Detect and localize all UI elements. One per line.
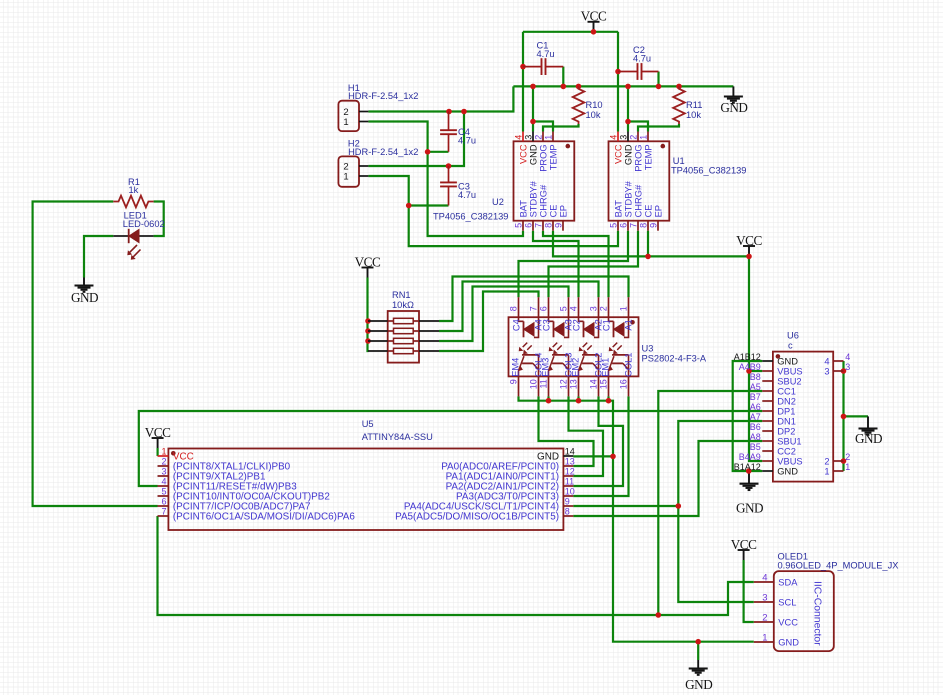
junction (841, 368, 847, 374)
wire H2 pin1 to U1 BAT (368, 176, 618, 246)
ground symbol GND (LED1) (71, 278, 98, 305)
wire VCC to U1 pin4 (617, 32, 619, 132)
svg-text:U5: U5 (362, 419, 374, 429)
svg-text:11: 11 (565, 477, 574, 487)
svg-text:EM4: EM4 (511, 358, 521, 377)
svg-text:4: 4 (514, 135, 524, 140)
svg-text:9: 9 (509, 379, 519, 384)
svg-text:2: 2 (534, 135, 544, 140)
junction (530, 119, 536, 125)
junction (446, 163, 452, 169)
wire GND rail (513, 85, 733, 87)
wire R1 to LED1 (154, 202, 164, 237)
svg-text:EM1: EM1 (601, 358, 611, 377)
wire GND rail to H1 pin2 (368, 86, 513, 111)
ground symbol GND (U6 pins) (736, 471, 763, 515)
svg-text:3: 3 (845, 362, 850, 372)
svg-text:6: 6 (619, 223, 629, 228)
wire VCC to U6 A4B9 (749, 370, 762, 372)
svg-text:B7: B7 (750, 392, 761, 402)
svg-text:A1: A1 (624, 319, 634, 330)
wire U2 STDBY# to U3 C2 (533, 231, 579, 298)
svg-text:7: 7 (161, 507, 166, 517)
wire U5 pin14 GND (573, 455, 613, 457)
junction (365, 338, 371, 344)
wire U5 PA6 SDA to OLED (158, 516, 754, 615)
wire U3 COL4 to U5 PA0 (539, 396, 594, 466)
junction (656, 84, 662, 90)
junction (446, 109, 452, 115)
wire H1 pin1 to U2 BAT (368, 122, 523, 237)
optocoupler U3 PS2802-4-F3-A (509, 297, 707, 396)
svg-text:TP4056_C382139: TP4056_C382139 (671, 166, 746, 176)
svg-text:DN1: DN1 (777, 416, 796, 426)
svg-text:RN1: RN1 (392, 290, 411, 300)
svg-text:2: 2 (845, 452, 850, 462)
wire U3 pin15 drop (607, 396, 609, 400)
svg-text:U6: U6 (787, 330, 799, 340)
resistor network RN1 (368, 290, 439, 363)
svg-text:8: 8 (544, 223, 554, 228)
svg-text:6: 6 (539, 306, 549, 311)
svg-text:STDBY#: STDBY# (529, 180, 539, 217)
ground symbol GND (top right) (720, 86, 747, 115)
svg-text:2: 2 (824, 456, 829, 466)
svg-text:10: 10 (529, 379, 539, 389)
wire U6 CC1 drop (658, 391, 762, 615)
svg-text:0.96OLED_4P_MODULE_JX: 0.96OLED_4P_MODULE_JX (778, 560, 899, 570)
svg-text:TEMP: TEMP (549, 144, 559, 170)
junction (656, 612, 662, 618)
ground symbol GND (U6 shield) (855, 416, 882, 446)
wire emitter common / GND bus (519, 396, 754, 641)
junction (530, 84, 536, 90)
svg-text:10: 10 (565, 487, 575, 497)
svg-text:A6: A6 (750, 402, 761, 412)
svg-text:(PCINT6/OC1A/SDA/MOSI/DI/ADC6): (PCINT6/OC1A/SDA/MOSI/DI/ADC6)PA6 (173, 511, 356, 522)
svg-text:4: 4 (609, 135, 619, 140)
wire U6 shield to GND (844, 415, 869, 417)
svg-text:13: 13 (569, 379, 579, 389)
svg-text:GND: GND (855, 431, 882, 446)
svg-text:DP1: DP1 (777, 406, 795, 416)
junction (576, 84, 582, 90)
wire U6 DN1 / SCL to OLED (678, 421, 762, 602)
svg-text:14: 14 (565, 447, 575, 457)
svg-text:VBUS: VBUS (777, 456, 802, 466)
svg-text:GND: GND (720, 100, 747, 115)
junction (365, 328, 371, 334)
wire U6 GND pins (733, 361, 763, 471)
wire RN1 row1 to U3 A1 (439, 277, 629, 322)
junction (746, 254, 752, 260)
svg-text:STDBY#: STDBY# (624, 180, 634, 217)
svg-text:A5: A5 (750, 382, 761, 392)
wire VCC riser to U6 VBUS (749, 255, 762, 461)
wire R1 to U5 PA7 (33, 202, 158, 507)
svg-text:6: 6 (524, 223, 534, 228)
svg-text:DP2: DP2 (777, 426, 795, 436)
wire U1 CE drop (647, 231, 649, 257)
svg-text:ATTINY84A-SSU: ATTINY84A-SSU (362, 432, 433, 442)
svg-text:U1: U1 (673, 156, 685, 166)
MCU U5 ATTINY84A-SSU (158, 419, 575, 530)
junction (546, 398, 552, 404)
junction (610, 454, 616, 460)
svg-text:B8: B8 (750, 372, 761, 382)
svg-text:VBUS: VBUS (777, 366, 802, 376)
svg-text:7: 7 (529, 306, 539, 311)
svg-text:3: 3 (524, 135, 534, 140)
junction (520, 64, 526, 70)
junction (576, 398, 582, 404)
svg-text:c: c (788, 340, 793, 350)
svg-text:5: 5 (514, 223, 524, 228)
wire U1 CHRG# to U3 C3 (549, 231, 639, 298)
wire H2 pin2 riser (368, 112, 464, 167)
svg-text:BAT: BAT (519, 200, 529, 218)
wire U1 TEMP to GND (628, 122, 648, 132)
wire U2 CE to VCC (553, 231, 749, 257)
svg-text:CE: CE (644, 204, 654, 217)
svg-text:6: 6 (161, 497, 166, 507)
svg-text:9: 9 (649, 223, 659, 228)
svg-text:8: 8 (639, 223, 649, 228)
wire VCC top rail (523, 31, 618, 33)
svg-text:12: 12 (565, 467, 575, 477)
svg-text:1: 1 (619, 306, 629, 311)
svg-text:8: 8 (565, 507, 570, 517)
svg-text:A4B9: A4B9 (739, 362, 761, 372)
svg-text:PS2802-4-F3-A: PS2802-4-F3-A (642, 354, 707, 364)
svg-text:PA5(ADC5/DO/MISO/OC1B/PCINT5): PA5(ADC5/DO/MISO/OC1B/PCINT5) (395, 511, 559, 522)
svg-text:C2: C2 (572, 319, 582, 331)
power flag VCC (U5) (145, 425, 171, 448)
svg-text:5: 5 (161, 487, 166, 497)
svg-text:5: 5 (559, 306, 569, 311)
svg-text:GND: GND (624, 144, 634, 165)
svg-text:CE: CE (549, 204, 559, 217)
svg-text:15: 15 (599, 379, 609, 389)
svg-text:LED-0602: LED-0602 (123, 219, 165, 229)
svg-text:IIC-Connector: IIC-Connector (812, 581, 823, 646)
junction (461, 109, 467, 115)
svg-text:1: 1 (343, 172, 348, 183)
wire U6 shield pins (842, 361, 844, 471)
wire RN1 row4 to U3 A4 (439, 292, 539, 352)
svg-text:11: 11 (539, 379, 549, 388)
wire U3 COL1 to U5 PA3 (573, 396, 628, 496)
svg-text:U2: U2 (492, 197, 504, 207)
svg-text:4.7u: 4.7u (458, 136, 476, 146)
resistor R11 (673, 86, 702, 124)
svg-text:2: 2 (629, 135, 639, 140)
junction (365, 318, 371, 324)
wire U2 CHRG# to U3 C1 (543, 231, 609, 298)
power flag VCC (OLED) (731, 537, 757, 560)
svg-text:HDR-F-2.54_1x2: HDR-F-2.54_1x2 (348, 91, 418, 101)
junction (676, 503, 682, 509)
svg-text:A7: A7 (750, 412, 761, 422)
svg-text:C3: C3 (542, 319, 552, 331)
svg-text:4: 4 (824, 356, 829, 366)
svg-text:3: 3 (824, 366, 829, 376)
power flag VCC (RN1) (355, 254, 381, 277)
svg-text:4: 4 (161, 477, 166, 487)
wire C1 right to GND rail (562, 67, 564, 87)
IC U2 TP4056 (433, 132, 574, 231)
wire to GND (697, 642, 699, 660)
svg-text:R11: R11 (686, 100, 702, 110)
junction (561, 84, 567, 90)
svg-text:1: 1 (762, 633, 767, 644)
svg-text:B1A12: B1A12 (734, 462, 761, 472)
resistor R1 (113, 177, 153, 207)
svg-text:PROG: PROG (539, 144, 549, 171)
capacitor C3 (440, 166, 476, 206)
svg-text:CC2: CC2 (777, 446, 796, 456)
opto cell 2: LED C2/A2, transistor EM2/COL2 (571, 317, 604, 377)
svg-text:C1: C1 (602, 319, 612, 331)
svg-text:EM3: EM3 (541, 358, 551, 377)
svg-text:4.7u: 4.7u (537, 49, 555, 59)
svg-text:TP4056_C382139: TP4056_C382139 (433, 212, 508, 222)
svg-text:CHRG#: CHRG# (539, 184, 549, 217)
module OLED1 0.96OLED_4P_MODULE_JX (754, 552, 899, 652)
wire RN1 row3 to U3 A3 (439, 287, 569, 342)
opto cell 4: LED C4/A4, transistor EM4/COL4 (511, 317, 544, 377)
svg-text:COL1: COL1 (624, 353, 634, 377)
wire U1 STDBY# to U3 C4 (519, 231, 629, 298)
svg-text:1k: 1k (129, 185, 139, 195)
wire RN1 row2 to U3 A2 (439, 282, 599, 332)
svg-text:A1B12: A1B12 (734, 352, 761, 362)
svg-text:2: 2 (762, 613, 767, 624)
svg-text:GND: GND (71, 290, 98, 305)
svg-text:4: 4 (762, 573, 767, 584)
junction (746, 468, 752, 474)
svg-text:BAT: BAT (614, 200, 624, 218)
wire U3 COL2 to U5 PA2 (573, 396, 623, 486)
svg-text:1: 1 (343, 117, 348, 128)
wire U2 TEMP to GND (533, 122, 553, 132)
svg-text:B4A9: B4A9 (739, 452, 761, 462)
wire GND to U2 pin3 (532, 86, 534, 131)
svg-text:SDA: SDA (778, 577, 798, 587)
svg-text:CC1: CC1 (777, 386, 796, 396)
wire U5 PA4 SCL (573, 505, 678, 507)
svg-text:1: 1 (824, 466, 829, 476)
svg-text:GND: GND (778, 637, 799, 647)
svg-text:10k: 10k (686, 110, 701, 120)
svg-text:SCL: SCL (778, 597, 796, 607)
svg-text:4.7u: 4.7u (633, 53, 651, 63)
svg-text:14: 14 (589, 379, 599, 389)
svg-text:GND: GND (736, 500, 763, 515)
svg-text:10k: 10k (586, 110, 601, 120)
junction (591, 29, 597, 35)
svg-text:1: 1 (639, 135, 649, 140)
svg-text:13: 13 (565, 457, 575, 467)
wire U6 SBU1 to U5 PA5 (573, 441, 762, 516)
junction (841, 458, 847, 464)
wire C2 right to GND rail (657, 72, 659, 87)
junction (606, 398, 612, 404)
capacitor C4 (440, 112, 476, 152)
svg-text:1: 1 (544, 135, 554, 140)
svg-text:12: 12 (559, 379, 569, 389)
svg-text:9: 9 (565, 497, 570, 507)
capacitor C2 (618, 45, 659, 80)
wire VCC to OLED (744, 560, 754, 622)
opto cell 3: LED C3/A3, transistor EM3/COL3 (541, 317, 574, 377)
wire VCC to U2 pin4 (522, 32, 524, 132)
svg-text:DN2: DN2 (777, 396, 796, 406)
svg-text:4.7u: 4.7u (458, 190, 476, 200)
svg-text:3: 3 (762, 593, 767, 604)
wire U3 pin11 drop (547, 396, 549, 400)
header H1 (338, 83, 418, 131)
junction (645, 254, 651, 260)
svg-text:SBU1: SBU1 (777, 436, 801, 446)
junction (625, 119, 631, 125)
svg-text:R10: R10 (586, 100, 603, 110)
svg-text:GND: GND (685, 677, 712, 692)
svg-text:16: 16 (619, 379, 629, 389)
svg-text:EP: EP (559, 205, 569, 217)
svg-text:GND: GND (777, 466, 798, 476)
svg-text:VCC: VCC (778, 617, 798, 627)
junction (406, 203, 412, 209)
svg-text:EP: EP (654, 205, 664, 217)
svg-text:CHRG#: CHRG# (634, 184, 644, 217)
svg-text:3: 3 (161, 467, 166, 477)
svg-text:10kΩ: 10kΩ (392, 300, 414, 310)
svg-text:EM2: EM2 (571, 358, 581, 377)
svg-text:1: 1 (845, 462, 850, 472)
wire R11 to U1 PROG (638, 124, 679, 132)
power flag VCC (top) (581, 9, 607, 32)
wire U3 pin13 drop (577, 396, 579, 400)
junction (425, 149, 431, 155)
LED LED1 (113, 211, 164, 260)
wire U3 COL3 to U5 PA1 (569, 396, 604, 476)
svg-text:TEMP: TEMP (644, 144, 654, 170)
power flag VCC (right) (736, 233, 762, 256)
svg-text:3: 3 (619, 135, 629, 140)
svg-text:VCC: VCC (519, 144, 529, 164)
svg-text:GND: GND (529, 144, 539, 165)
opto cell 1: LED C1/A1, transistor EM1/COL1 (601, 317, 634, 377)
resistor R10 (573, 86, 603, 124)
header H2 (338, 139, 418, 187)
svg-text:2: 2 (599, 306, 609, 311)
svg-text:B6: B6 (750, 422, 761, 432)
wire VCC to RN1 (368, 278, 369, 352)
junction (625, 84, 631, 90)
svg-text:7: 7 (629, 223, 639, 228)
svg-text:B5: B5 (750, 442, 761, 452)
svg-text:3: 3 (589, 306, 599, 311)
svg-text:5: 5 (609, 223, 619, 228)
junction (695, 639, 701, 645)
svg-text:4: 4 (569, 306, 579, 311)
wire C4 bottom branch (428, 151, 449, 153)
connector U6 (USB type C) (734, 330, 851, 481)
wire VCC to U5 pin1 (157, 448, 159, 456)
junction (746, 368, 752, 374)
svg-text:C4: C4 (512, 319, 522, 331)
svg-text:A8: A8 (750, 432, 761, 442)
wire C3 bottom branch (409, 204, 449, 206)
svg-text:U3: U3 (642, 344, 654, 354)
svg-text:HDR-F-2.54_1x2: HDR-F-2.54_1x2 (348, 147, 418, 157)
wire R10 to U2 PROG (543, 124, 579, 132)
svg-text:4: 4 (845, 352, 850, 362)
svg-text:1: 1 (161, 447, 166, 457)
svg-text:GND: GND (777, 356, 798, 366)
svg-text:9: 9 (554, 223, 564, 228)
svg-text:2: 2 (161, 457, 166, 467)
wire LED1 to GND (84, 236, 113, 278)
svg-text:8: 8 (509, 306, 519, 311)
capacitor C1 (523, 40, 563, 75)
junction (676, 84, 682, 90)
svg-text:7: 7 (534, 223, 544, 228)
svg-text:VCC: VCC (614, 144, 624, 164)
wire U5 PB3 to U6 DP1 (139, 411, 763, 486)
IC U1 TP4056 (609, 132, 747, 231)
svg-text:SBU2: SBU2 (777, 376, 801, 386)
svg-text:PROG: PROG (634, 144, 644, 171)
junction (615, 69, 621, 75)
junction (841, 414, 847, 420)
wire GND to U1 pin3 (627, 86, 629, 131)
